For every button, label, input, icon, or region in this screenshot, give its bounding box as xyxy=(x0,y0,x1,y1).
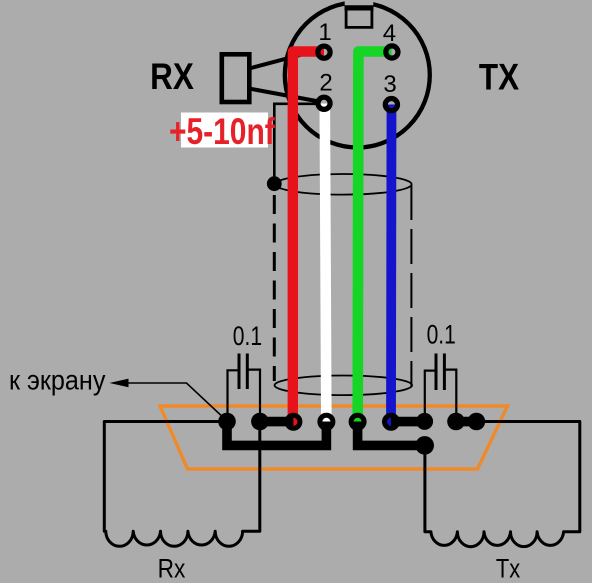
node D (white wire end) xyxy=(320,415,333,428)
cable sheath top rim (ellipse) xyxy=(275,174,412,195)
svg-text:RX: RX xyxy=(150,56,194,97)
wire bus node E to node H xyxy=(358,422,425,446)
cable sheath bottom rim (ellipse) xyxy=(275,376,413,396)
RX plug body box xyxy=(222,54,250,102)
wire bus node F to node G xyxy=(391,417,425,427)
svg-text:Rx: Rx xyxy=(158,554,186,583)
svg-text:0.1: 0.1 xyxy=(233,321,262,351)
capacitor C2 right lead xyxy=(247,370,260,421)
node G xyxy=(416,413,433,430)
wire shield from pin 2 xyxy=(274,104,319,184)
cable sheath left side (dashed) xyxy=(273,195,276,381)
node shield junction xyxy=(267,176,282,191)
wire blue (pin 3 to node F) xyxy=(386,105,396,427)
svg-text:к экрану: к экрану xyxy=(9,364,106,396)
arrow annotation line to shield node xyxy=(118,383,227,421)
node H xyxy=(415,436,434,455)
svg-text:0.1: 0.1 xyxy=(427,320,456,350)
arrowhead xyxy=(110,379,129,388)
wire plug to pin 1 xyxy=(249,51,317,69)
wire bus node A to node D xyxy=(227,422,326,446)
connector J1 DIN socket outline xyxy=(285,3,430,148)
wire bus node B to node C xyxy=(260,417,294,427)
node A xyxy=(218,413,236,431)
pin 3 xyxy=(385,99,397,111)
capacitor C1 value label background xyxy=(181,113,268,148)
capacitor C3 right lead xyxy=(444,370,456,421)
pin 4 xyxy=(386,46,398,58)
wire bus node I to node J xyxy=(456,417,476,427)
capacitor C3 left lead xyxy=(425,371,436,421)
wire red (pin 1 to node C) xyxy=(293,52,324,427)
inductor L2 Tx coil loop xyxy=(425,422,580,547)
pin 1 xyxy=(318,46,330,58)
inductor L1 Rx coil loop xyxy=(104,422,259,547)
svg-text:3: 3 xyxy=(383,71,396,98)
svg-text:+5-10nf: +5-10nf xyxy=(169,112,275,153)
D-sub connector shell (orange outline) xyxy=(160,406,508,469)
node E (green wire end) xyxy=(351,415,364,428)
wire plug to pin 2 xyxy=(249,89,319,102)
capacitor C2 right plate xyxy=(246,354,249,390)
capacitor C2 left plate xyxy=(238,354,241,390)
cable sheath right side (dashed) xyxy=(410,185,412,386)
node J xyxy=(468,413,486,431)
connector J1 key notch xyxy=(345,0,374,29)
svg-text:4: 4 xyxy=(383,20,396,47)
capacitor C3 right plate xyxy=(443,354,446,391)
wire white (pin 2 to node D) xyxy=(325,104,327,427)
node B xyxy=(251,413,269,431)
svg-text:Tx: Tx xyxy=(496,554,521,583)
node C (red wire end) xyxy=(287,415,300,428)
svg-text:1: 1 xyxy=(318,19,331,46)
wire green (pin 4 to node E) xyxy=(358,52,392,427)
capacitor C3 left plate xyxy=(435,354,438,391)
svg-text:2: 2 xyxy=(319,70,332,97)
node I xyxy=(447,413,465,431)
svg-text:TX: TX xyxy=(479,57,519,98)
capacitor C2 left lead xyxy=(228,370,240,421)
node F (blue wire end) xyxy=(385,415,398,428)
pin 2 xyxy=(318,97,330,109)
